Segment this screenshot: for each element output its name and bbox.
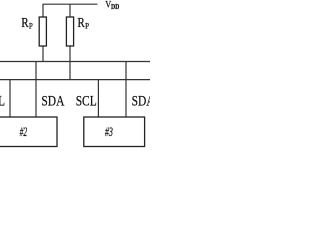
svg-text:DD: DD: [111, 3, 119, 11]
svg-text:SCL: SCL: [76, 94, 97, 110]
svg-text:R: R: [21, 15, 28, 30]
svg-text:SDA: SDA: [41, 94, 65, 110]
svg-text:#2: #2: [20, 125, 28, 139]
svg-text:P: P: [85, 21, 89, 31]
svg-text:SCL: SCL: [0, 94, 5, 110]
svg-text:R: R: [77, 15, 84, 30]
svg-text:#3: #3: [105, 125, 113, 139]
svg-text:SDA: SDA: [132, 94, 150, 110]
svg-text:P: P: [29, 21, 33, 31]
